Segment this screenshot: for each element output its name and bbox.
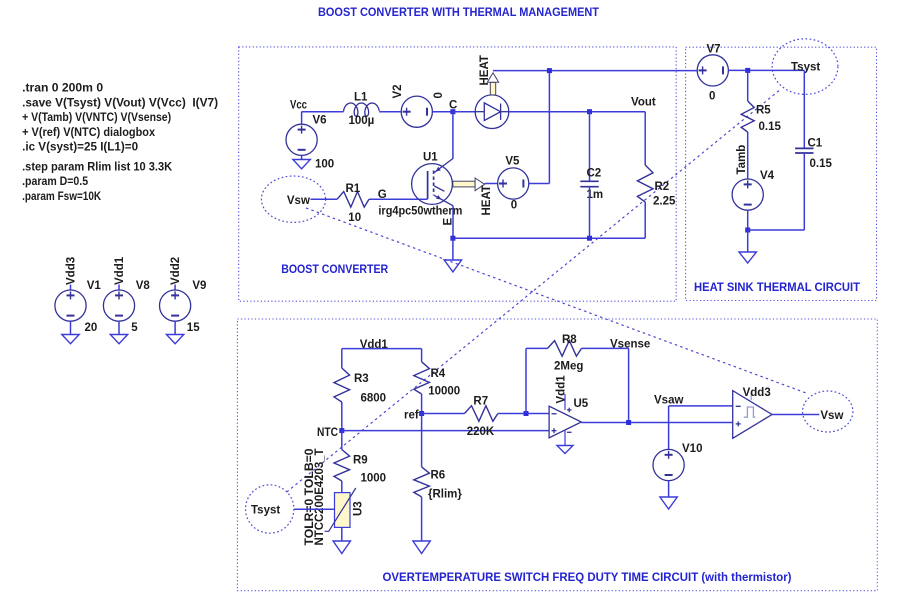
- voltage source V10: [653, 449, 684, 480]
- voltage source V5: [498, 168, 529, 199]
- wire Vdd1 rail: [342, 348, 422, 350]
- svg-text:ref: ref: [404, 410, 419, 422]
- svg-text:NTC: NTC: [317, 427, 338, 439]
- wire R9 to U3: [341, 481, 343, 493]
- svg-text:2Meg: 2Meg: [554, 361, 583, 373]
- capacitor C2: [580, 181, 598, 186]
- wire R9 top: [341, 431, 343, 450]
- heat arrow of D1: [487, 73, 498, 95]
- svg-text:Vdd3: Vdd3: [743, 387, 771, 399]
- wire R2 top drop: [644, 112, 646, 165]
- svg-text:100: 100: [315, 159, 334, 171]
- wire V5 riser: [548, 71, 550, 184]
- node Tsyst ellipse (thermistor): [246, 485, 294, 533]
- svg-text:L1: L1: [354, 92, 368, 104]
- junction heat rail: [547, 68, 552, 73]
- schmitt symbol inside comparator: [744, 407, 756, 417]
- svg-text:V1: V1: [87, 280, 102, 292]
- wire R4 top: [421, 349, 423, 362]
- svg-text:V10: V10: [682, 443, 702, 455]
- svg-text:0.15: 0.15: [810, 158, 833, 170]
- wire U5 ground stub: [564, 430, 566, 446]
- svg-text:V4: V4: [760, 170, 775, 182]
- wire R3 top: [341, 349, 343, 368]
- wire R7 to U5: [498, 413, 549, 415]
- diode D1 (heat): [475, 95, 509, 129]
- resistor R9: [334, 450, 350, 482]
- op-amp U5: [549, 406, 581, 438]
- junction node E: [450, 236, 455, 241]
- wire U5 power stub: [564, 394, 566, 410]
- svg-text:0: 0: [511, 200, 517, 212]
- svg-text:U5: U5: [574, 398, 589, 410]
- wire heat bottom link: [748, 229, 805, 231]
- svg-text:R3: R3: [354, 373, 369, 385]
- capacitor C1: [795, 148, 813, 153]
- svg-text:V7: V7: [707, 44, 721, 56]
- wire V8 top stub: [118, 285, 120, 291]
- wire U1 emitter down: [452, 206, 454, 238]
- svg-text:HEAT SINK THERMAL CIRCUIT: HEAT SINK THERMAL CIRCUIT: [694, 282, 860, 294]
- svg-text:HEAT: HEAT: [479, 55, 491, 85]
- wire Tsyst to U3: [294, 508, 335, 510]
- wire V1 top stub: [70, 285, 72, 291]
- resistor R3: [334, 368, 350, 402]
- Vsw net dotted link line: [306, 208, 806, 393]
- ground V8: [110, 335, 127, 344]
- wire C1 top leg: [803, 70, 805, 148]
- svg-text:Vdd3: Vdd3: [65, 257, 77, 285]
- wire Vout rail: [509, 111, 645, 113]
- wire R5 to V4: [747, 132, 749, 179]
- wire ref to R7: [422, 413, 465, 415]
- svg-text:R8: R8: [562, 334, 577, 346]
- resistor R5: [741, 101, 754, 132]
- svg-text:5: 5: [131, 322, 138, 334]
- svg-text:0: 0: [709, 91, 715, 103]
- svg-text:.save V(Tsyst) V(Vout) V(Vcc): .save V(Tsyst) V(Vout) V(Vcc) I(V7): [22, 95, 218, 109]
- ground heat sink: [739, 252, 756, 263]
- ground V9: [166, 335, 183, 344]
- wire R3 bottom: [341, 402, 343, 431]
- voltage source V8: [103, 290, 134, 321]
- wire heat ground stub: [747, 230, 749, 252]
- svg-text:BOOST CONVERTER WITH THERMAL M: BOOST CONVERTER WITH THERMAL MANAGEMENT: [318, 5, 600, 19]
- svg-text:6800: 6800: [361, 393, 387, 405]
- resistor R2: [637, 165, 653, 202]
- wire U3 ground stub: [341, 527, 343, 541]
- wire Vsw to R1: [311, 198, 338, 200]
- svg-text:20: 20: [85, 322, 98, 334]
- ground V1: [62, 335, 79, 344]
- junction ref: [419, 411, 424, 416]
- ground V10: [660, 497, 677, 509]
- wire R8 right: [582, 347, 629, 349]
- inductor L1: [344, 103, 380, 116]
- svg-text:V5: V5: [505, 156, 520, 168]
- wire V1 bottom stub: [70, 321, 72, 334]
- overtemperature box: [237, 319, 877, 591]
- wire node C to diode: [453, 111, 475, 113]
- comparator U2 (Vdd3 schmitt buffer): [733, 391, 772, 439]
- junction node C: [450, 109, 455, 114]
- wire Vsaw riser: [668, 406, 670, 450]
- boost converter box: [239, 47, 677, 301]
- svg-text:Vsaw: Vsaw: [654, 395, 683, 407]
- svg-text:R4: R4: [431, 368, 446, 380]
- svg-text:.tran 0 200m 0: .tran 0 200m 0: [22, 81, 103, 95]
- svg-text:2.25: 2.25: [653, 196, 676, 208]
- ground R6: [413, 541, 430, 554]
- voltage source V6: [286, 124, 317, 155]
- svg-text:Vdd1: Vdd1: [114, 256, 126, 285]
- svg-text:.param Fsw=10K: .param Fsw=10K: [22, 189, 101, 203]
- svg-text:0: 0: [433, 92, 445, 98]
- wire R8 left: [526, 347, 548, 349]
- wire heat top rail: [493, 70, 697, 72]
- svg-text:10000: 10000: [428, 386, 460, 398]
- svg-text:R1: R1: [346, 183, 361, 195]
- wire C2 top leg: [589, 112, 591, 182]
- voltage source V2: [401, 96, 432, 127]
- svg-text:15: 15: [187, 322, 200, 334]
- svg-text:{Rlim}: {Rlim}: [428, 489, 462, 501]
- ground boost: [444, 260, 461, 272]
- voltage source V9: [160, 290, 191, 321]
- svg-text:220K: 220K: [467, 426, 495, 438]
- svg-text:Vdd1: Vdd1: [556, 375, 568, 404]
- ground U5: [557, 446, 573, 454]
- ground U3: [333, 541, 350, 554]
- svg-text:V8: V8: [136, 280, 151, 292]
- wire R4 bottom: [421, 394, 423, 414]
- svg-text:Tsyst: Tsyst: [791, 62, 820, 74]
- wire R5 top: [747, 70, 749, 101]
- svg-text:R5: R5: [756, 105, 771, 117]
- svg-text:100µ: 100µ: [349, 115, 375, 127]
- wire node C down to U1: [452, 112, 454, 159]
- svg-text:irg4pc50wtherm: irg4pc50wtherm: [378, 206, 462, 218]
- svg-text:U1: U1: [423, 152, 438, 164]
- junction R8 tap: [524, 411, 529, 416]
- wire V4 bottom: [747, 210, 749, 230]
- transistor U1 irg4pc50wtherm: [412, 158, 454, 205]
- svg-text:NTCC200E4203_T: NTCC200E4203_T: [314, 449, 326, 546]
- svg-text:Vcc: Vcc: [290, 100, 307, 112]
- wire R6 bottom: [421, 497, 423, 541]
- wire V8 bottom stub: [118, 321, 120, 334]
- wire bottom rail: [453, 237, 645, 239]
- svg-text:0.15: 0.15: [759, 121, 782, 133]
- svg-text:R2: R2: [655, 181, 670, 193]
- svg-text:R6: R6: [431, 470, 446, 482]
- svg-text:G: G: [378, 189, 387, 201]
- svg-text:Tsyst: Tsyst: [251, 505, 280, 517]
- ground V6: [293, 160, 310, 169]
- svg-text:+ V(ref) V(NTC) dialogbox: + V(ref) V(NTC) dialogbox: [22, 125, 155, 139]
- heat arrow of U1: [453, 178, 485, 191]
- svg-text:BOOST CONVERTER: BOOST CONVERTER: [281, 264, 389, 276]
- wire Vsaw to comparator: [669, 405, 733, 407]
- svg-text:.param D=0.5: .param D=0.5: [22, 174, 88, 188]
- junction heat bottom: [745, 228, 750, 233]
- Tsyst net dotted link line: [287, 91, 779, 492]
- svg-text:C1: C1: [808, 138, 823, 150]
- svg-text:Vsw: Vsw: [287, 195, 310, 207]
- wire V10 ground stub: [668, 481, 670, 497]
- svg-text:Vsw: Vsw: [820, 410, 843, 422]
- svg-text:.step param Rlim list 10 3.3K: .step param Rlim list 10 3.3K: [22, 159, 172, 173]
- heat sink box: [686, 47, 877, 300]
- wire V5 right: [529, 183, 550, 185]
- wire C1 bottom leg: [803, 153, 805, 230]
- wire V2 to node C: [432, 111, 453, 113]
- wire V6 ground stub: [301, 155, 303, 159]
- voltage source V4: [732, 179, 763, 210]
- wire U5 output: [581, 422, 732, 424]
- thermistor U3: [335, 493, 351, 528]
- svg-text:Tamb: Tamb: [736, 145, 748, 175]
- resistor R7: [465, 406, 498, 422]
- svg-text:R9: R9: [353, 455, 368, 467]
- svg-text:Vout: Vout: [631, 97, 656, 109]
- svg-text:10: 10: [348, 212, 361, 224]
- svg-text:Vsense: Vsense: [610, 339, 650, 351]
- junction NTC: [339, 428, 344, 433]
- node Vsw ellipse (output): [803, 391, 853, 432]
- wire R6 top: [421, 414, 423, 467]
- node Vsw ellipse (boost): [261, 176, 325, 222]
- svg-text:Vdd2: Vdd2: [170, 257, 182, 285]
- svg-text:HEAT: HEAT: [481, 185, 493, 215]
- node Tsyst ellipse (heat sink): [772, 39, 838, 95]
- svg-text:V6: V6: [313, 115, 327, 127]
- junction C2 bottom: [587, 236, 592, 241]
- junction C2 top: [587, 109, 592, 114]
- svg-text:1000: 1000: [361, 473, 387, 485]
- resistor R8: [548, 341, 582, 357]
- wire Vcc rail: [302, 111, 344, 113]
- wire R8 left riser: [525, 348, 527, 413]
- comparator power stub: [750, 393, 752, 401]
- wire heat arrow to V5: [485, 183, 498, 185]
- junction U5 out: [626, 420, 631, 425]
- wire R2 bottom: [644, 202, 646, 238]
- wire V9 bottom stub: [174, 321, 176, 334]
- svg-text:.ic V(syst)=25 I(L1)=0: .ic V(syst)=25 I(L1)=0: [22, 140, 138, 154]
- wire Vsense drop: [628, 348, 630, 422]
- svg-text:U3: U3: [353, 501, 365, 516]
- wire NTC to opamp: [342, 430, 549, 432]
- wire E ground stub: [452, 238, 454, 260]
- wire C2 bottom leg: [589, 187, 591, 239]
- svg-text:V9: V9: [192, 280, 206, 292]
- wire V6 top stub: [301, 112, 303, 125]
- svg-text:OVERTEMPERATURE SWITCH FREQ DU: OVERTEMPERATURE SWITCH FREQ DUTY TIME CI…: [383, 572, 792, 584]
- wire R1 to gate: [369, 198, 428, 200]
- resistor R4: [414, 362, 430, 394]
- resistor R1: [337, 192, 369, 208]
- junction R5 top: [745, 68, 750, 73]
- wire V7 to Tsyst: [728, 69, 804, 71]
- voltage source V1: [55, 290, 86, 321]
- svg-text:R7: R7: [473, 396, 488, 408]
- resistor R6: [414, 467, 430, 497]
- svg-text:V2: V2: [392, 84, 404, 98]
- svg-text:C2: C2: [587, 168, 602, 180]
- wire V9 top stub: [174, 285, 176, 291]
- wire comparator output: [772, 414, 819, 416]
- svg-text:+ V(Tamb) V(VNTC) V(Vsense): + V(Tamb) V(VNTC) V(Vsense): [22, 110, 171, 124]
- voltage source V7: [697, 55, 728, 86]
- wire L1 to V2: [379, 111, 401, 113]
